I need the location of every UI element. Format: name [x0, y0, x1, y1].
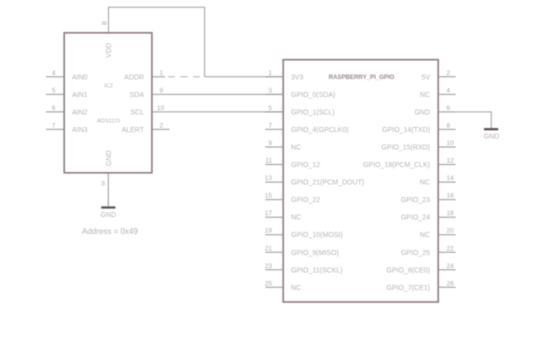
svg-text:GPIO_11(SCKL): GPIO_11(SCKL) — [291, 267, 343, 274]
svg-text:AIN3: AIN3 — [72, 127, 88, 134]
svg-text:18: 18 — [447, 210, 455, 217]
svg-text:11: 11 — [265, 158, 272, 165]
svg-text:20: 20 — [447, 228, 455, 235]
svg-text:GPIO_23: GPIO_23 — [401, 197, 430, 204]
svg-text:GPIO_24: GPIO_24 — [401, 215, 430, 222]
svg-text:25: 25 — [265, 280, 273, 287]
svg-text:14: 14 — [447, 175, 455, 182]
svg-text:GPIO_18(PCM_CLK): GPIO_18(PCM_CLK) — [363, 162, 430, 169]
svg-text:GPIO_9(MISO): GPIO_9(MISO) — [291, 250, 339, 257]
svg-text:NC: NC — [291, 215, 301, 222]
svg-text:Address = 0x49: Address = 0x49 — [82, 227, 138, 236]
svg-text:GND: GND — [106, 150, 113, 166]
svg-text:ALERT: ALERT — [122, 127, 145, 134]
svg-text:NC: NC — [420, 180, 430, 187]
svg-text:1: 1 — [160, 70, 164, 77]
svg-text:3: 3 — [268, 87, 272, 94]
svg-text:IC2: IC2 — [104, 83, 112, 89]
svg-text:7: 7 — [268, 122, 272, 129]
svg-text:10: 10 — [157, 105, 165, 112]
svg-text:4: 4 — [447, 87, 451, 94]
svg-text:GPIO_8(CE0): GPIO_8(CE0) — [386, 267, 430, 274]
svg-text:8: 8 — [447, 122, 451, 129]
svg-text:GPIO_1(SCL): GPIO_1(SCL) — [291, 109, 335, 116]
svg-text:16: 16 — [447, 193, 455, 200]
svg-text:2: 2 — [160, 122, 164, 129]
svg-text:ADDR: ADDR — [124, 74, 144, 81]
svg-text:3: 3 — [101, 181, 105, 188]
svg-text:24: 24 — [447, 263, 455, 270]
svg-text:6: 6 — [447, 105, 451, 112]
svg-text:GPIO_14(TXD): GPIO_14(TXD) — [382, 127, 430, 134]
svg-text:5V: 5V — [421, 74, 430, 81]
svg-text:GPIO_21(PCM_DOUT): GPIO_21(PCM_DOUT) — [291, 180, 364, 187]
svg-text:GND: GND — [484, 134, 500, 141]
svg-text:5: 5 — [52, 87, 56, 94]
svg-text:AIN1: AIN1 — [72, 92, 88, 99]
svg-text:8: 8 — [102, 21, 109, 25]
svg-text:VDD: VDD — [106, 43, 113, 58]
svg-text:NC: NC — [291, 145, 301, 152]
svg-text:13: 13 — [265, 175, 273, 182]
svg-text:GPIO_0(SDA): GPIO_0(SDA) — [291, 92, 335, 99]
svg-text:GPIO_15(RXD): GPIO_15(RXD) — [381, 145, 430, 152]
svg-text:6: 6 — [52, 105, 56, 112]
svg-text:3V3: 3V3 — [291, 74, 304, 81]
svg-text:SDA: SDA — [130, 92, 145, 99]
svg-text:22: 22 — [447, 245, 455, 252]
svg-text:5: 5 — [268, 105, 272, 112]
svg-text:GPIO_12: GPIO_12 — [291, 162, 320, 169]
svg-text:17: 17 — [265, 210, 273, 217]
svg-text:SCL: SCL — [130, 109, 144, 116]
svg-text:23: 23 — [265, 263, 273, 270]
svg-text:NC: NC — [291, 285, 301, 292]
svg-text:NC: NC — [420, 232, 430, 239]
svg-text:7: 7 — [52, 122, 56, 129]
svg-text:10: 10 — [447, 140, 455, 147]
svg-text:GPIO_4(GPCLK0): GPIO_4(GPCLK0) — [291, 127, 349, 134]
svg-text:9: 9 — [160, 87, 164, 94]
svg-text:AIN2: AIN2 — [72, 109, 88, 116]
svg-text:9: 9 — [268, 140, 272, 147]
svg-text:GPIO_25: GPIO_25 — [401, 250, 430, 257]
svg-text:GPIO_7(CE1): GPIO_7(CE1) — [386, 285, 430, 292]
svg-text:12: 12 — [447, 158, 455, 165]
svg-text:RASPBERRY_PI_GPIO: RASPBERRY_PI_GPIO — [329, 74, 395, 81]
svg-text:NC: NC — [420, 92, 430, 99]
svg-text:GND: GND — [414, 109, 430, 116]
svg-text:GPIO_22: GPIO_22 — [291, 197, 320, 204]
svg-text:AIN0: AIN0 — [72, 74, 88, 81]
svg-text:1: 1 — [268, 70, 272, 77]
svg-text:4: 4 — [52, 70, 56, 77]
svg-text:GND: GND — [101, 212, 117, 219]
svg-text:2: 2 — [447, 70, 451, 77]
svg-text:19: 19 — [265, 228, 273, 235]
svg-text:15: 15 — [265, 193, 273, 200]
svg-text:ADS1115: ADS1115 — [97, 118, 120, 124]
svg-text:21: 21 — [265, 245, 273, 252]
svg-text:GPIO_10(MOSI): GPIO_10(MOSI) — [291, 232, 343, 239]
svg-text:26: 26 — [447, 280, 455, 287]
